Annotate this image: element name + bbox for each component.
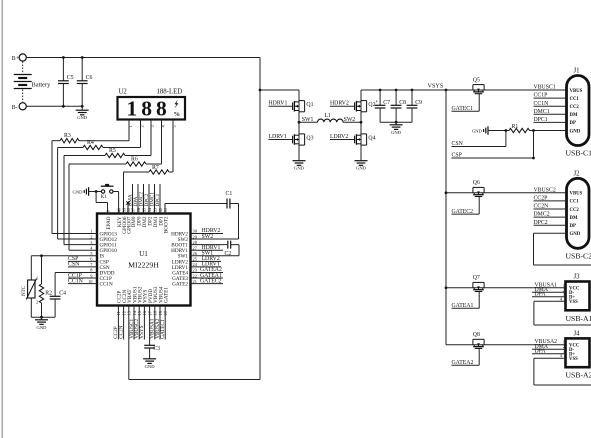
svg-text:C8: C8 [399, 100, 406, 106]
svg-text:GATEC2: GATEC2 [452, 209, 474, 215]
svg-text:HDRV1: HDRV1 [202, 245, 221, 251]
svg-text:VSS: VSS [569, 357, 578, 362]
svg-text:DPC1: DPC1 [534, 117, 548, 123]
svg-text:U2: U2 [119, 89, 128, 96]
svg-text:R6: R6 [131, 157, 138, 163]
svg-text:USB-C1: USB-C1 [566, 149, 591, 158]
svg-text:GATE3: GATE3 [172, 276, 188, 282]
svg-text:GND: GND [37, 325, 48, 330]
svg-text:DPC1: DPC1 [155, 193, 161, 206]
svg-text:1: 1 [90, 229, 92, 234]
svg-text:22: 22 [193, 273, 197, 278]
svg-text:GND: GND [72, 189, 83, 194]
svg-text:Q4: Q4 [368, 135, 375, 141]
svg-text:C7: C7 [383, 100, 390, 106]
svg-text:R1: R1 [512, 124, 519, 130]
svg-text:DPA: DPA [535, 291, 547, 297]
svg-text:Q1: Q1 [306, 102, 313, 108]
svg-text:1: 1 [128, 125, 133, 127]
svg-text:GND: GND [570, 232, 581, 237]
svg-text:GPIO10: GPIO10 [100, 248, 118, 254]
svg-text:188-LED: 188-LED [157, 89, 183, 96]
svg-text:B-: B- [12, 105, 18, 111]
svg-text:GND: GND [391, 130, 402, 135]
svg-text:U1: U1 [139, 250, 148, 258]
svg-text:HDRV1: HDRV1 [171, 248, 188, 254]
svg-text:GATEC1: GATEC1 [160, 319, 166, 339]
svg-text:CC2: CC2 [570, 208, 580, 213]
svg-text:CC1P: CC1P [534, 93, 548, 99]
svg-text:Q8: Q8 [473, 332, 480, 338]
svg-text:MI2229H: MI2229H [128, 261, 159, 270]
svg-text:CSN: CSN [100, 265, 110, 271]
svg-text:USB-A2: USB-A2 [566, 371, 591, 380]
svg-text:CC1P: CC1P [100, 276, 113, 282]
svg-text:GATEA2: GATEA2 [452, 360, 474, 366]
svg-text:EPAD: EPAD [106, 216, 112, 229]
svg-text:R2: R2 [45, 291, 52, 297]
svg-text:CC2P: CC2P [534, 196, 548, 202]
svg-text:CSN: CSN [452, 141, 464, 147]
svg-text:C3: C3 [153, 346, 160, 352]
svg-text:GATEC1: GATEC1 [452, 106, 474, 112]
svg-text:Q2: Q2 [368, 102, 375, 108]
svg-text:Battery: Battery [32, 82, 52, 89]
svg-text:GND: GND [570, 129, 581, 134]
svg-text:LDRV1: LDRV1 [172, 265, 189, 271]
svg-text:DMC1: DMC1 [534, 109, 550, 115]
svg-text:Q6: Q6 [473, 180, 480, 186]
svg-text:2: 2 [90, 234, 92, 239]
svg-text:Q7: Q7 [473, 275, 480, 281]
svg-text:GPIO12: GPIO12 [100, 237, 118, 243]
svg-text:LDRV1: LDRV1 [202, 262, 220, 268]
svg-text:CC1P: CC1P [68, 273, 82, 279]
svg-text:2: 2 [36, 300, 38, 305]
svg-text:GATEA1: GATEA1 [452, 303, 474, 309]
svg-text:CC1N: CC1N [68, 278, 84, 284]
svg-text:VSYS: VSYS [139, 325, 145, 338]
svg-text:SW2: SW2 [344, 117, 356, 123]
svg-text:J4: J4 [574, 330, 581, 337]
svg-text:CC1N: CC1N [534, 101, 550, 107]
svg-text:USB-A1: USB-A1 [566, 314, 591, 323]
svg-text:Q3: Q3 [306, 135, 313, 141]
svg-text:J1: J1 [574, 68, 580, 75]
svg-text:CC1: CC1 [570, 200, 580, 205]
svg-text:DP: DP [570, 121, 576, 126]
svg-text:VBUS: VBUS [570, 89, 583, 94]
svg-text:GATE1: GATE1 [164, 287, 170, 303]
svg-text:VSS: VSS [569, 300, 578, 305]
svg-text:DM: DM [570, 216, 578, 221]
svg-text:SW2: SW2 [202, 234, 214, 240]
svg-text:NTC: NTC [22, 285, 27, 296]
svg-text:CSP: CSP [452, 153, 462, 159]
svg-text:VBUSC1: VBUSC1 [534, 85, 556, 91]
svg-text:C2: C2 [225, 251, 232, 257]
svg-text:%: % [174, 111, 181, 118]
svg-text:CC2N: CC2N [118, 325, 124, 339]
svg-text:DM: DM [570, 113, 578, 118]
svg-text:GATE2: GATE2 [172, 282, 188, 288]
svg-text:GATEA1: GATEA1 [200, 273, 222, 279]
svg-text:BOOT2: BOOT2 [163, 216, 169, 233]
svg-text:B+: B+ [12, 56, 19, 62]
svg-text:C6: C6 [86, 75, 93, 81]
svg-text:GATEC2: GATEC2 [200, 278, 222, 284]
svg-text:J3: J3 [574, 274, 581, 281]
svg-text:C4: C4 [59, 291, 66, 297]
svg-text:J2: J2 [574, 170, 581, 177]
svg-text:+: + [375, 99, 378, 105]
svg-text:C9: C9 [415, 100, 422, 106]
svg-text:C1: C1 [226, 191, 233, 197]
svg-text:L1: L1 [325, 113, 332, 119]
svg-text:GND: GND [356, 166, 367, 171]
svg-text:CC2: CC2 [570, 105, 580, 110]
svg-text:21: 21 [193, 279, 197, 284]
svg-text:VBUSC2: VBUSC2 [534, 187, 556, 193]
svg-text:GND: GND [145, 364, 156, 369]
svg-text:R7: R7 [152, 165, 159, 171]
svg-text:GND: GND [472, 128, 483, 133]
svg-text:R3: R3 [64, 133, 71, 139]
svg-text:CC1: CC1 [570, 97, 580, 102]
svg-text:GND: GND [77, 115, 88, 120]
svg-text:1: 1 [36, 276, 38, 281]
svg-text:GND: GND [294, 166, 305, 171]
svg-text:Q5: Q5 [473, 77, 480, 83]
svg-text:VBUS: VBUS [570, 192, 583, 197]
svg-text:CC1N: CC1N [100, 282, 114, 288]
svg-text:DPC2: DPC2 [534, 220, 548, 226]
svg-text:CSN: CSN [68, 262, 80, 268]
svg-text:CC2N: CC2N [534, 204, 550, 210]
svg-text:DMC2: DMC2 [534, 212, 550, 218]
svg-text:VSYS: VSYS [428, 83, 444, 90]
svg-text:2: 2 [140, 125, 145, 127]
svg-text:R4: R4 [87, 140, 94, 146]
svg-text:K1: K1 [101, 195, 108, 200]
svg-text:USB-C2: USB-C2 [566, 251, 591, 260]
svg-text:C5: C5 [67, 75, 74, 81]
svg-text:DPA: DPA [535, 348, 547, 354]
svg-text:R5: R5 [109, 148, 116, 154]
svg-text:SW2: SW2 [178, 237, 189, 243]
svg-text:188: 188 [127, 97, 171, 121]
svg-text:DP: DP [570, 224, 576, 229]
